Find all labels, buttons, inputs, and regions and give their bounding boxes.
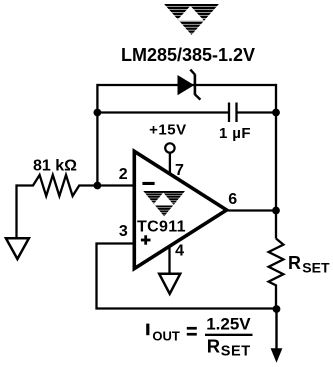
- svg-text:R: R: [288, 253, 301, 273]
- wire right rail: [275, 84, 277, 239]
- svg-text:LM285/385-1.2V: LM285/385-1.2V: [121, 45, 255, 65]
- wire pin 4: [168, 245, 170, 274]
- node junction left cap rail: [94, 109, 102, 117]
- svg-text:1.25V: 1.25V: [206, 314, 251, 333]
- wire pin 2: [97, 184, 133, 186]
- node junction pin2/left rail: [94, 182, 102, 190]
- svg-text:7: 7: [175, 162, 184, 179]
- output current arrow: [275, 310, 277, 353]
- wire pin 7: [169, 153, 171, 176]
- formula I_OUT = 1.25V / R_SET: [146, 324, 149, 336]
- ground op-amp (open triangle): [159, 274, 180, 294]
- resistor RSET zigzag: [269, 239, 284, 310]
- svg-text:1 µF: 1 µF: [219, 125, 251, 142]
- capacitor C1 plates: [228, 103, 230, 123]
- svg-text:81 kΩ: 81 kΩ: [33, 158, 77, 175]
- wire pin 6 output: [227, 209, 276, 211]
- svg-text:4: 4: [175, 243, 184, 260]
- svg-text:3: 3: [119, 223, 128, 240]
- svg-text:TC911: TC911: [137, 219, 186, 236]
- wire left drop to ground: [15, 184, 17, 238]
- svg-text:+15V: +15V: [149, 122, 186, 139]
- svg-text:R: R: [207, 335, 220, 356]
- pin 7 supply terminal circle: [165, 143, 174, 152]
- wire cap rail left: [97, 111, 229, 113]
- svg-text:2: 2: [119, 166, 128, 183]
- wire top rail: [97, 84, 276, 86]
- plus sign pin3: [141, 239, 151, 242]
- logo (TelCom) top: [164, 4, 219, 36]
- node junction right cap rail: [272, 109, 280, 117]
- svg-text:OUT: OUT: [152, 329, 180, 344]
- svg-text:SET: SET: [302, 260, 330, 276]
- resistor R1 81k zigzag: [17, 175, 98, 196]
- wire pin 3 feedback: left, down, right: [97, 244, 277, 309]
- wire left rail: [96, 84, 98, 186]
- node junction feedback/RSET/arrow: [273, 305, 281, 313]
- ground left (open triangle): [6, 238, 29, 259]
- svg-text:SET: SET: [221, 344, 251, 360]
- wire cap rail right: [237, 111, 277, 113]
- op-amp U1 TC911: [134, 151, 226, 268]
- node junction pin6/right rail: [272, 207, 280, 215]
- minus sign pin2: [142, 182, 154, 185]
- svg-text:6: 6: [228, 191, 237, 208]
- logo inside op-amp: [143, 191, 185, 217]
- zener D1 LM285: [178, 70, 201, 100]
